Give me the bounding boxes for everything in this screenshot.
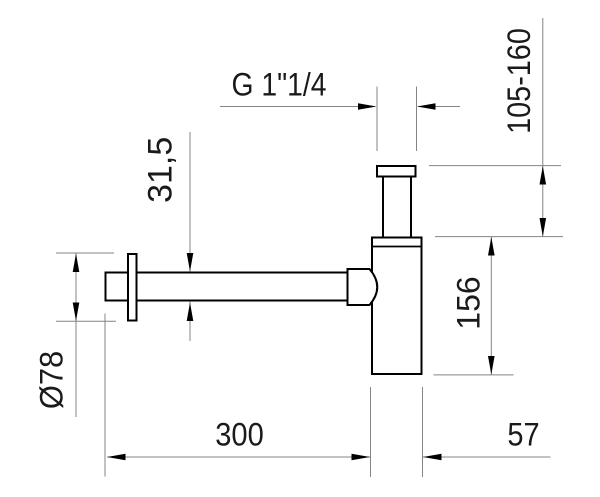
extension line body top xyxy=(435,236,563,238)
extension line body right xyxy=(422,387,424,477)
arrow down at pipe top xyxy=(187,253,194,272)
svg-text:300: 300 xyxy=(215,417,264,453)
outlet nut at body xyxy=(348,269,378,305)
trap body xyxy=(372,238,422,375)
extension line cap left xyxy=(376,87,378,152)
arrow right at body left xyxy=(352,454,371,461)
arrow up at pipe bottom xyxy=(187,303,194,322)
svg-text:105-160: 105-160 xyxy=(502,28,538,134)
arrow down at flange bottom xyxy=(73,303,80,322)
extension line flange bottom xyxy=(56,320,116,322)
dimension line 105-160 xyxy=(542,18,544,237)
arrow down at body bottom xyxy=(488,356,495,375)
extension line body left xyxy=(370,387,372,477)
arrow left at pipe end xyxy=(107,454,126,461)
outlet pipe (horizontal tube to wall) xyxy=(106,273,348,301)
trap body top flange line xyxy=(371,246,423,248)
extension line pipe end xyxy=(104,314,106,477)
arrow up at body top xyxy=(488,237,495,256)
svg-text:Ø78: Ø78 xyxy=(34,351,70,409)
arrow left at right cap edge xyxy=(417,103,436,110)
arrow up at cap top line xyxy=(540,166,547,185)
extension line cap right xyxy=(416,87,418,152)
svg-text:31,5: 31,5 xyxy=(142,137,180,203)
arrow up at flange top xyxy=(73,254,80,273)
svg-text:57: 57 xyxy=(507,417,539,453)
dimension line diameter 78 xyxy=(75,254,77,418)
arrow down at body top line xyxy=(540,218,547,237)
dimension line 57 xyxy=(423,456,551,458)
inlet pipe (vertical telescopic tube) xyxy=(383,176,411,238)
cap nut G 1"1/4 xyxy=(377,166,416,177)
extension line body bottom right xyxy=(434,374,514,376)
extension line flange top xyxy=(56,252,114,254)
arrow left at body right xyxy=(423,454,442,461)
dimension line 156 xyxy=(490,237,492,375)
dimension G 1"1/4 leader line right xyxy=(418,106,460,108)
wall flange rosette xyxy=(128,254,137,321)
dimension G 1"1/4 leader line left xyxy=(220,106,375,108)
dimension line 31,5 upper xyxy=(189,132,191,272)
extension line cap top xyxy=(429,165,561,167)
svg-text:156: 156 xyxy=(451,276,487,329)
arrow right at left cap edge xyxy=(358,103,377,110)
dimension line 31,5 lower xyxy=(189,302,191,342)
svg-text:G 1"1/4: G 1"1/4 xyxy=(231,68,326,103)
dimension line 300 xyxy=(107,456,370,458)
